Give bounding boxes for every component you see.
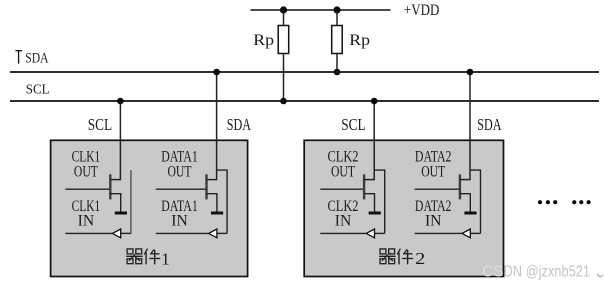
wire: pin branch to DATA2 input buffer [470,170,481,233]
transistor CLK2 source arm [364,194,374,212]
svg-text:OUT: OUT [168,164,192,181]
wire: resistor Rp1 to SCL bus [283,54,285,102]
wire: CLK1 IN line [65,232,113,234]
wire: CLK2 buffer output to arrow [374,232,384,234]
label DATA1 IN [161,198,198,229]
wire: CLK1 input buffer vertical [130,170,132,233]
wire: SDA bus to DATA2 transistor drain (pin line) [469,72,471,180]
label CLK1 OUT [72,148,101,180]
label CLK2 IN [328,198,359,229]
svg-text:OUT: OUT [74,164,98,181]
svg-text:SCL: SCL [341,115,365,134]
transistor CLK2 drain arm [364,179,375,181]
svg-text:2: 2 [415,249,425,268]
transistor DATA1 source arm [207,194,217,212]
label Rp (left) [253,32,274,49]
wire: CLK2 IN line [320,232,366,234]
transistor CLK1 output FET gate/channel bar [109,174,111,199]
wire: SDA bus to DATA1 transistor drain (pin line) [216,72,218,180]
label SCL pin of device 2 [341,115,365,134]
label CLK1 IN [72,198,101,229]
node: junction rail / Rp2 [333,6,340,13]
device 2 box (器件2) [304,140,503,276]
watermark tail mark [597,274,603,277]
+VDD supply rail wire [251,9,391,11]
transistor DATA2 drain arm [460,179,471,181]
transistor DATA2 source arm [460,194,470,212]
transistor CLK2 output FET gate wire [320,188,364,190]
wire: SCL bus to CLK1 transistor drain (pin line) [119,101,121,180]
svg-text:Rp: Rp [253,32,274,49]
ground (source) bar of DATA2 FET [464,212,476,215]
svg-text:1: 1 [161,250,170,269]
wire: DATA1 IN line [156,232,209,234]
resistor Rp2 (pull-up on SDA) [332,26,343,54]
device 1 box (器件1) [51,140,248,276]
resistor Rp1 (pull-up on SCL) [278,26,289,54]
wire: SCL bus to CLK2 transistor drain (pin line) [373,101,375,180]
svg-text:SDA: SDA [227,115,252,134]
ground (source) bar of DATA1 FET [211,212,223,215]
node: junction rail / Rp1 [280,6,287,13]
label SDA pin of device 2 [477,115,502,134]
svg-text:IN: IN [171,212,188,229]
transistor DATA2 output FET gate/channel bar [459,174,461,199]
svg-text:DN @jzxnb521: DN @jzxnb521 [504,264,591,281]
label CLK2 OUT [328,148,359,180]
input buffer arrow of CLK1 [112,229,120,238]
input buffer arrow of CLK2 [366,229,374,238]
node: junction Rp1 / SCL bus [280,98,287,105]
svg-text:OUT: OUT [331,164,355,181]
wire: CLK1 buffer output to arrow [121,232,131,234]
input buffer arrow of DATA2 [462,229,470,238]
label DATA2 IN [415,198,452,229]
wire: rail to resistor Rp2 [336,10,338,26]
label 器件2 (device 2) [379,249,425,269]
node: junction dot DATA2 pin on SDA bus [467,69,474,76]
node: junction dot DATA1 pin on SDA bus [213,69,220,76]
svg-text:+VDD: +VDD [404,2,439,19]
wire: resistor Rp2 to SDA bus [336,54,338,73]
svg-text:SCL: SCL [26,83,50,98]
transistor DATA1 output FET gate/channel bar [205,174,207,199]
label DATA2 OUT [415,148,452,180]
wire: pin branch to CLK2 input buffer [374,170,385,233]
wire: rail to resistor Rp1 [283,10,285,26]
transistor DATA2 output FET gate wire [415,188,460,190]
label DATA1 OUT [161,148,198,180]
up-tick marker before SDA label [15,51,22,64]
ground (source) bar of CLK1 FET [115,212,127,215]
transistor CLK1 output FET gate wire [65,188,110,190]
label +VDD [404,2,439,19]
ground (source) bar of CLK2 FET [369,212,381,215]
svg-text:OUT: OUT [421,164,445,181]
label SDA pin of device 1 [227,115,252,134]
wire: SDA bus line [10,71,599,73]
label 器件1 (device 1) [126,249,170,269]
wire: SCL bus line [10,100,599,102]
svg-text:IN: IN [335,212,352,229]
wire: pin branch to DATA1 input buffer [217,170,228,233]
svg-text:CS: CS [482,264,504,281]
svg-text:IN: IN [78,212,95,229]
input buffer arrow of DATA1 [209,229,217,238]
transistor CLK2 output FET gate/channel bar [363,174,365,199]
watermark CSDN @jzxnb521 [482,264,590,281]
wire: DATA1 buffer output to arrow [217,232,227,234]
transistor CLK1 drain arm [110,179,121,181]
transistor CLK1 source arm [110,194,120,212]
svg-text:SCL: SCL [88,115,112,134]
label SCL pin of device 1 [88,115,112,134]
svg-text:Rp: Rp [349,32,370,49]
label SDA bus [25,50,48,66]
svg-text:SDA: SDA [477,115,502,134]
wire: DATA2 IN line [415,232,463,234]
node: junction dot CLK1 pin on SCL bus [117,98,124,105]
node: junction dot CLK2 pin on SCL bus [371,98,378,105]
transistor DATA1 output FET gate wire [156,188,207,190]
label Rp (right) [349,32,370,49]
transistor DATA1 drain arm [207,179,218,181]
ellipsis: more devices [538,200,591,204]
node: junction Rp2 / SDA bus [334,69,341,76]
svg-text:IN: IN [425,212,442,229]
label SCL bus [26,83,50,98]
svg-text:SDA: SDA [25,50,48,66]
wire: DATA2 buffer output to arrow [470,232,480,234]
